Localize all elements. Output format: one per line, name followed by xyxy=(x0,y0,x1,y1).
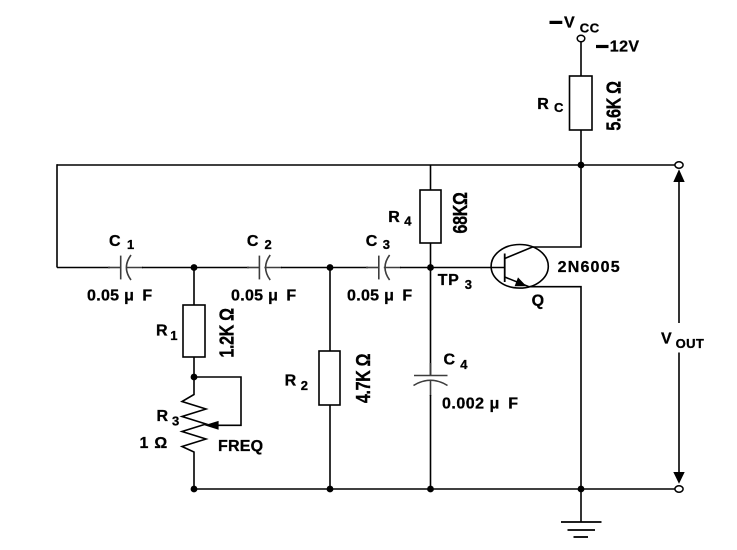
svg-text:0.05 μ F: 0.05 μ F xyxy=(87,288,153,305)
wire VCC terminal to RC top xyxy=(580,42,582,76)
wire output vertical xyxy=(678,181,680,473)
label RC xyxy=(537,96,564,115)
wire TP3 to base xyxy=(431,267,505,269)
transistor Q base bar xyxy=(504,254,506,283)
node collector junction xyxy=(578,162,585,169)
svg-text:3: 3 xyxy=(172,413,179,428)
svg-text:C: C xyxy=(554,100,564,115)
node R3 bottom xyxy=(191,486,198,493)
arrowhead output top xyxy=(673,169,684,182)
svg-text:1 Ω: 1 Ω xyxy=(140,435,168,452)
resistor R2 xyxy=(319,351,340,405)
wire bottom rail xyxy=(194,488,675,490)
label C2 xyxy=(247,233,272,252)
label VOUT xyxy=(661,331,704,351)
svg-text:C: C xyxy=(247,233,259,250)
label -12V xyxy=(596,39,639,56)
wire R1 bottom to node C xyxy=(193,357,195,377)
label TP3 xyxy=(438,272,472,292)
svg-text:12V: 12V xyxy=(610,39,640,56)
label C4 xyxy=(444,351,469,372)
terminal VCC xyxy=(577,35,585,41)
capacitor C4 xyxy=(414,363,448,396)
capacitor C1 xyxy=(108,255,143,280)
svg-text:C: C xyxy=(366,233,378,250)
wire R2 top lead xyxy=(329,268,331,352)
wire R3 wiper xyxy=(194,377,241,425)
svg-text:CC: CC xyxy=(580,21,600,36)
ground xyxy=(561,489,602,537)
transistor Q emitter line xyxy=(505,277,529,287)
transistor Q body xyxy=(491,244,548,288)
wire C1 to node A xyxy=(142,267,194,269)
svg-text:3: 3 xyxy=(465,277,472,292)
svg-text:4: 4 xyxy=(460,357,468,372)
svg-text:R: R xyxy=(157,408,169,425)
potentiometer R3 xyxy=(182,377,206,489)
svg-text:V: V xyxy=(661,331,672,348)
wire top rail xyxy=(57,164,676,166)
svg-text:5.6K Ω: 5.6K Ω xyxy=(602,81,625,130)
svg-text:C: C xyxy=(109,233,121,250)
wire node A to C2 xyxy=(194,267,249,269)
svg-text:1: 1 xyxy=(127,237,134,252)
wire emitter to ground rail xyxy=(529,287,581,489)
svg-text:R: R xyxy=(388,209,400,226)
arrowhead emitter xyxy=(515,277,527,286)
arrowhead R3 wiper xyxy=(204,421,218,430)
node C (R3 top) xyxy=(191,374,198,381)
svg-text:4: 4 xyxy=(404,214,412,229)
svg-text:C: C xyxy=(444,351,456,368)
svg-text:OUT: OUT xyxy=(676,336,705,351)
node R2 bottom xyxy=(327,486,334,493)
svg-text:TP: TP xyxy=(438,272,459,289)
node C4 bottom xyxy=(427,486,434,493)
svg-text:2: 2 xyxy=(265,237,272,252)
label R2 xyxy=(285,373,308,394)
wire left to C1 xyxy=(57,267,110,269)
node TP3 xyxy=(427,264,434,271)
wire left feedback vertical xyxy=(56,164,58,267)
node A (R1 top) xyxy=(191,264,198,271)
wire C2 to node B xyxy=(281,267,330,269)
transistor Q collector line xyxy=(505,247,533,259)
wire R4 top lead xyxy=(430,165,432,190)
svg-text:R: R xyxy=(537,96,549,113)
label -VCC xyxy=(550,15,600,36)
svg-text:Q: Q xyxy=(532,292,544,309)
capacitor C3 xyxy=(366,255,401,280)
svg-text:0.05 μ F: 0.05 μ F xyxy=(231,288,297,305)
label C3 xyxy=(366,233,390,252)
arrowhead output bottom xyxy=(673,472,684,484)
svg-text:2: 2 xyxy=(301,378,308,393)
svg-text:R: R xyxy=(285,373,297,390)
terminal output top xyxy=(675,162,683,168)
node ground junction xyxy=(578,486,585,493)
resistor RC xyxy=(570,76,593,130)
svg-text:2N6005: 2N6005 xyxy=(558,259,621,276)
terminal output bottom xyxy=(675,486,683,492)
label R3 xyxy=(157,408,180,429)
svg-text:R: R xyxy=(156,323,168,340)
svg-text:3: 3 xyxy=(383,237,390,252)
svg-text:4.7K Ω: 4.7K Ω xyxy=(351,354,374,403)
wire TP3 to C4 xyxy=(430,268,432,376)
wire R1 top lead xyxy=(193,268,195,306)
wire R2 bottom lead xyxy=(329,405,331,489)
wire RC bottom to collector node xyxy=(580,130,582,165)
capacitor C2 xyxy=(247,255,282,280)
wire R4 bottom to TP3 xyxy=(430,243,432,268)
svg-text:FREQ: FREQ xyxy=(218,438,263,455)
svg-text:0.002 μ F: 0.002 μ F xyxy=(442,395,519,412)
svg-text:0.05 μ F: 0.05 μ F xyxy=(347,288,413,305)
node B (R2 top) xyxy=(327,264,334,271)
label R1 xyxy=(156,323,178,344)
label R4 xyxy=(388,209,412,229)
wire collector to node xyxy=(533,165,582,247)
wire C3 to node TP3 xyxy=(400,267,431,269)
resistor R1 xyxy=(183,305,205,357)
svg-text:68KΩ: 68KΩ xyxy=(448,193,471,234)
svg-text:1: 1 xyxy=(170,328,177,343)
wire C4 to bottom rail xyxy=(430,395,432,489)
svg-text:1.2K Ω: 1.2K Ω xyxy=(215,308,238,357)
label C1 xyxy=(109,233,134,252)
resistor R4 xyxy=(420,190,441,243)
svg-text:V: V xyxy=(564,15,575,32)
wire node B to C3 xyxy=(330,267,368,269)
